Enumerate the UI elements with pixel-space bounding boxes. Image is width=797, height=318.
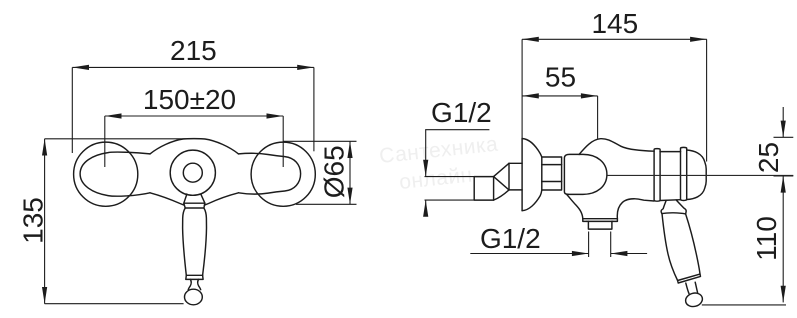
- ring 2: [681, 147, 687, 200]
- svg-text:110: 110: [751, 216, 782, 261]
- barrel bottom contour left of outlet: [567, 194, 583, 218]
- arrow G12bot left: [611, 251, 628, 256]
- arrow G12top down: [423, 160, 428, 177]
- handle ball: [185, 289, 203, 305]
- dim 150 line: [105, 115, 283, 117]
- ring 1: [654, 149, 660, 202]
- svg-text:55: 55: [545, 62, 576, 93]
- arrow 215 right: [297, 65, 314, 70]
- arrow 145 right: [690, 37, 707, 42]
- body bottom contour left: [150, 193, 184, 205]
- outlet flange: [583, 219, 618, 222]
- arrow 150 left: [105, 113, 122, 118]
- eccentric cone: [494, 163, 509, 176]
- arrow 150 right: [267, 113, 284, 118]
- handshower ring band: [678, 274, 701, 283]
- G1/2 pipe ext lines: [425, 176, 475, 178]
- arrow 110 down: [781, 286, 786, 303]
- arrow 55 right: [581, 93, 598, 98]
- tube to flange: [509, 162, 522, 164]
- arrow 135 top: [42, 139, 47, 156]
- arrow 110 up: [781, 176, 786, 193]
- handshower ball: [684, 291, 704, 308]
- arrow 55 left: [522, 93, 539, 98]
- arrow 215 left: [72, 65, 89, 70]
- body bottom contour right: [204, 193, 238, 205]
- svg-text:215: 215: [170, 35, 217, 66]
- handshower handle body: [662, 214, 678, 281]
- dim 55 line: [522, 95, 598, 97]
- ext line bottom: [702, 304, 786, 306]
- arrow G12bot right: [572, 251, 589, 256]
- arrow 145 left: [522, 37, 539, 42]
- hex nut: [542, 157, 562, 190]
- inlet pipe: [474, 177, 493, 201]
- handshower collar joint line: [662, 213, 686, 214]
- rosette left outer circle: [74, 142, 138, 206]
- axis line thin: [607, 174, 793, 176]
- handle neck: [188, 279, 201, 289]
- body hook around left rosette: [80, 152, 150, 196]
- rosette right outer circle: [251, 142, 315, 206]
- G1/2 top leader: [426, 130, 490, 177]
- outlet nipple: [588, 221, 612, 229]
- dim 215 line: [72, 66, 314, 68]
- ext lines 215: [71, 67, 73, 153]
- svg-text:G1/2: G1/2: [431, 97, 492, 128]
- G1/2 bottom ext lines: [588, 232, 590, 258]
- barrel top contour with hump: [579, 139, 654, 155]
- ext lines 135: [45, 138, 186, 140]
- watermark: [378, 133, 499, 194]
- arrow O65 top: [347, 141, 352, 158]
- handshower neck: [686, 282, 698, 293]
- handle collar: [184, 194, 205, 203]
- dim 110 line: [782, 176, 784, 303]
- cartridge housing dome: [564, 154, 607, 194]
- barrel bottom contour right of outlet: [617, 199, 654, 219]
- ext line 55 right: [597, 96, 599, 139]
- svg-text:25: 25: [753, 142, 784, 173]
- svg-text:150±20: 150±20: [143, 84, 236, 115]
- G1/2 bottom leaders: [470, 253, 588, 255]
- arrow 25 down: [781, 121, 786, 138]
- svg-text:G1/2: G1/2: [480, 223, 541, 254]
- svg-text:145: 145: [591, 8, 638, 39]
- end dome: [687, 150, 707, 200]
- arrow O65 bottom: [347, 188, 352, 205]
- hub inner circle: [183, 163, 202, 182]
- handle body: [183, 208, 187, 275]
- body top contour arch: [150, 139, 239, 154]
- dim 25 arrows lines: [782, 107, 784, 137]
- handle ring band: [186, 274, 202, 276]
- body hook around right rosette: [239, 153, 301, 194]
- arrow 135 bottom: [42, 287, 47, 304]
- ext lines 150: [104, 116, 106, 167]
- hub outer circle: [170, 150, 215, 195]
- ext lines 145: [521, 39, 523, 139]
- svg-text:Ø65: Ø65: [319, 145, 350, 198]
- handshower holder cone: [661, 200, 686, 214]
- wall flange bell: [521, 139, 523, 211]
- dim 135 line: [44, 139, 46, 304]
- arrow G12top up: [423, 200, 428, 217]
- ext lines O65: [283, 140, 357, 142]
- dim O65 line: [349, 141, 351, 204]
- dim 145 line: [522, 38, 707, 40]
- svg-text:135: 135: [17, 197, 48, 244]
